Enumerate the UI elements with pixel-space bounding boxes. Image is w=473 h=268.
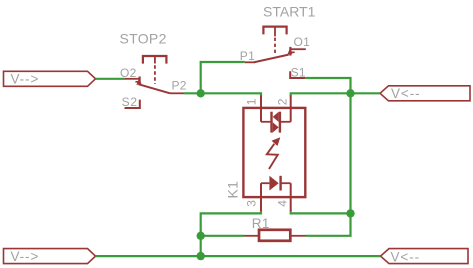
- relay K1 input diode pair: [261, 112, 291, 133]
- relay K1 box: [243, 108, 305, 197]
- svg-text:3: 3: [245, 200, 259, 207]
- net flag V (in, top-right): [380, 86, 470, 101]
- svg-text:R1: R1: [252, 216, 270, 231]
- svg-text:STOP2: STOP2: [120, 31, 167, 47]
- switch START1 pin O1: [290, 35, 310, 55]
- wire R1 right to right rail: [306, 213, 351, 235]
- relay K1 pin 2: [276, 96, 291, 122]
- svg-text:P1: P1: [240, 49, 255, 63]
- wire S1 to right rail: [305, 78, 350, 93]
- svg-text:P2: P2: [172, 79, 187, 93]
- svg-text:O2: O2: [120, 66, 137, 80]
- wire pin4 of K1 to bottom right junction: [291, 211, 351, 214]
- wire P2 to pin1 of K1: [184, 93, 261, 96]
- wire pin2 of K1 to right rail: [291, 93, 380, 96]
- wire flag to O2: [96, 78, 125, 80]
- svg-text:V-->: V-->: [11, 249, 40, 264]
- svg-text:4: 4: [276, 200, 290, 207]
- relay K1 pin 1: [245, 96, 262, 122]
- svg-text:START1: START1: [263, 3, 316, 19]
- svg-text:K1: K1: [225, 181, 241, 199]
- svg-text:1: 1: [245, 98, 259, 105]
- svg-text:S2: S2: [122, 95, 138, 109]
- wire junction to R1 left: [201, 235, 245, 237]
- net flag V (out, bottom-left): [4, 249, 96, 264]
- junction at P2 rail: [197, 89, 205, 97]
- resistor R1: [245, 216, 306, 241]
- svg-text:V-->: V-->: [11, 71, 40, 86]
- switch STOP2 label: [120, 31, 167, 47]
- net flag V (out, top-left): [4, 71, 96, 86]
- svg-text:S1: S1: [291, 65, 306, 79]
- svg-text:V<--: V<--: [391, 249, 420, 264]
- switch START1 pin P1: [240, 49, 255, 63]
- wire pin3 of K1 to left column: [201, 211, 261, 236]
- svg-text:2: 2: [276, 98, 290, 105]
- wire bottom rail: [96, 255, 381, 257]
- relay K1 pin 3: [245, 183, 262, 211]
- net flag V (in, bottom-right): [381, 249, 469, 265]
- junction at S1 rail: [346, 89, 354, 97]
- switch STOP2 pin P2: [170, 79, 187, 94]
- relay K1 pin 4: [276, 183, 291, 211]
- wire right rail vertical: [349, 93, 351, 213]
- relay K1 label: [225, 181, 241, 199]
- relay K1 flash arrow: [267, 137, 281, 169]
- switch STOP2 pin S2: [122, 95, 140, 109]
- relay K1 output diode: [261, 176, 291, 191]
- junction at R1 row: [197, 232, 205, 240]
- svg-text:V<--: V<--: [391, 86, 420, 101]
- junction at bottom rail: [197, 252, 205, 260]
- svg-text:O1: O1: [294, 35, 311, 49]
- wire junction up to P1: [201, 62, 245, 93]
- switch START1 lever: [254, 48, 292, 63]
- wire left column vertical: [200, 236, 202, 256]
- switch STOP2 lever: [136, 78, 170, 94]
- switch STOP2 pin O2: [120, 66, 140, 85]
- switch STOP2 button cap: [143, 56, 167, 84]
- junction right rail bottom: [346, 209, 354, 217]
- switch START1 button cap: [263, 27, 286, 55]
- switch START1 pin S1: [290, 65, 306, 79]
- switch START1 label: [263, 3, 316, 19]
